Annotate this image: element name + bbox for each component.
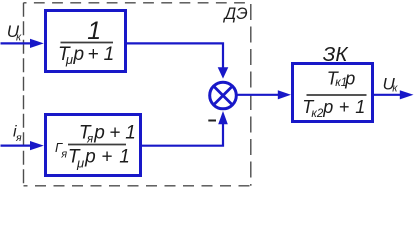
svg-text:p: p <box>322 97 333 117</box>
svg-text:+: + <box>339 97 350 117</box>
svg-text:p: p <box>93 122 105 143</box>
svg-text:p: p <box>73 44 85 65</box>
wire W2 output to summer <box>142 123 223 146</box>
svg-text:к: к <box>16 32 22 44</box>
block W2: r_ya (Tya p + 1)/(Tmu p + 1) <box>46 115 141 176</box>
value label Tk1p/(Tk2p+1) <box>302 69 366 121</box>
value label (Tya p+1)/(Tmu p+1) <box>68 122 136 170</box>
block W1: 1/(Tmu p + 1) <box>46 11 126 72</box>
wire summer to block ZK <box>238 94 279 96</box>
svg-text:μ: μ <box>76 155 84 170</box>
value label 1/(Tmu p+1) <box>58 17 114 67</box>
svg-text:1: 1 <box>104 44 115 65</box>
svg-text:к: к <box>392 82 398 94</box>
svg-text:p: p <box>84 147 96 168</box>
svg-text:я: я <box>15 132 22 144</box>
svg-text:+: + <box>101 147 112 168</box>
svg-text:1: 1 <box>87 17 101 45</box>
svg-text:+: + <box>109 122 120 143</box>
value label r_ya <box>55 140 67 161</box>
svg-text:1: 1 <box>125 122 136 143</box>
summing junction <box>210 82 237 109</box>
svg-text:к2: к2 <box>311 108 323 120</box>
block ZK: Tk1 p/(Tk2 p + 1) <box>293 64 373 122</box>
dashed subsystem box ДЭ <box>24 2 251 4</box>
wire output u_k <box>374 94 401 96</box>
svg-text:1: 1 <box>119 147 130 168</box>
svg-text:я: я <box>60 149 67 161</box>
svg-text:p: p <box>344 69 355 89</box>
svg-text:я: я <box>86 133 93 145</box>
svg-text:ДЭ: ДЭ <box>223 5 248 23</box>
svg-text:1: 1 <box>355 97 365 117</box>
wire input u_k <box>1 42 32 44</box>
svg-text:μ: μ <box>65 52 73 67</box>
minus sign at summer lower input <box>208 120 216 122</box>
wire input i_ya <box>1 145 32 147</box>
wire W1 output to summer <box>127 43 223 68</box>
svg-text:+: + <box>88 44 99 65</box>
